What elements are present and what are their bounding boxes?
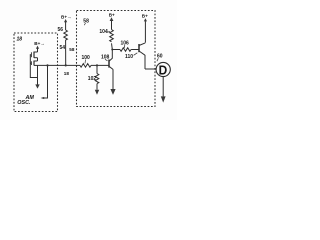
transistor Q lower (MOSFET) [34,61,38,65]
wire to horn [145,68,156,70]
B+ terminal up-arrow (box 18) [36,46,39,49]
collector wire Q108 [111,50,113,59]
resistor 102 [95,74,99,84]
wire FET source down to arrow terminal [37,65,39,85]
lead arrow 104 [106,31,110,34]
dashed box 58 (alarm circuit block) [77,11,156,107]
resistor 100 [80,64,91,68]
svg-text:58: 58 [69,47,75,52]
down-arrow terminal (box 18 ground) [35,84,39,88]
wire down to resistor 102 [96,65,98,73]
lead arrow 110 [134,53,138,56]
svg-text:18: 18 [17,37,23,43]
svg-text:OSC.: OSC. [17,100,31,106]
svg-text:B+→: B+→ [34,41,45,46]
resistor 106 [120,48,131,52]
junction node dot B [65,64,67,66]
svg-text:102: 102 [88,76,97,82]
down-arrow terminal (R102) [95,90,99,95]
lead arrow 100 [84,60,87,64]
svg-text:D: D [159,62,168,77]
emitter wire Q108 [112,69,114,89]
down-arrow terminal (Q108 emitter) [110,89,115,95]
resistor 56 [64,30,68,40]
svg-text:B+: B+ [109,13,115,18]
down-arrow terminal (below horn) [161,96,166,102]
transistor Q upper (MOSFET) [34,52,38,58]
svg-text:56: 56 [58,27,64,33]
wire resistor 102 to ground arrow [96,84,98,90]
lead arrow 106 [123,45,126,48]
svg-text:18: 18 [64,71,70,76]
resistor 104 [110,30,114,42]
collector wire Q110 [144,21,146,43]
output wire of box 18 at y=65.4 [38,64,81,66]
wire resistor 100 to base of Q108 [91,64,109,66]
lead line from node A to AM OSC label [44,65,48,98]
lead arrow 60 [157,58,158,61]
emitter wire Q110 down [144,55,146,69]
svg-text:110: 110 [125,54,133,60]
wire B+ to upper FET [37,49,39,53]
svg-text:B+: B+ [142,13,148,18]
horn 60 circle [156,62,170,76]
wire node to resistor 106 [112,49,120,51]
B+ up-arrow (R104 column) [110,17,114,21]
lead arrow 108 [105,59,108,61]
wire resistor 56 to junction B [65,40,67,65]
svg-text:54: 54 [60,45,66,51]
svg-text:B+→: B+→ [61,14,72,19]
transistor Q108 [108,60,110,68]
wire between FETs [37,58,39,61]
junction node dot A [46,64,48,66]
B+ up-arrow (Q110 column) [144,18,147,21]
dashed box 18 (oscillator block) [14,33,58,112]
wire B+ down to resistor 56 [65,22,67,30]
wire resistor 104 to collector node [111,43,114,49]
transistor Q110 [138,44,140,52]
collector node dot [111,48,113,50]
B+ up-arrow (54 column) [64,19,67,22]
junction dot for resistor 102 [96,64,98,66]
svg-text:58: 58 [83,18,89,24]
wire resistor 106 to base of Q110 [131,49,138,51]
wire B+ to resistor 104 [111,21,113,30]
wire horn to bottom arrow [162,77,164,97]
gate bus wire [30,55,37,78]
